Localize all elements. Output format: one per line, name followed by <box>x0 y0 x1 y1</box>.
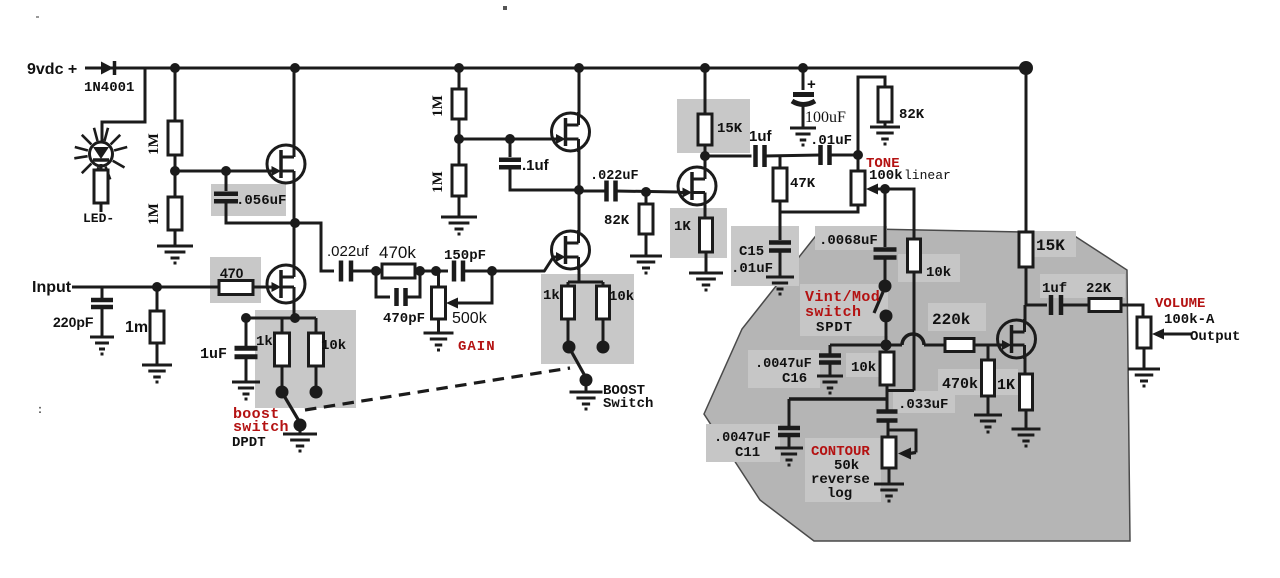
label patch .0047uF C11 <box>706 424 780 462</box>
capacitor C11 .0047uF <box>778 426 800 431</box>
wire .1uf lead <box>509 139 512 157</box>
label patch .033uF <box>893 391 955 413</box>
svg-text:220pF: 220pF <box>53 314 94 330</box>
wire 500k top lead <box>437 271 440 287</box>
wire TONE wiper down to .0068uF <box>884 189 887 247</box>
wire 220pF to ground <box>101 307 104 337</box>
svg-text:+: + <box>807 76 816 93</box>
svg-text:47K: 47K <box>790 176 816 192</box>
wire boost node bar <box>246 317 316 320</box>
wire TONE wiper right branch <box>885 189 914 239</box>
svg-text:100k-A: 100k-A <box>1164 312 1215 328</box>
LED D2 with rays <box>74 128 127 181</box>
wire Q3 drain to rail <box>578 68 581 115</box>
junction dots on rail <box>170 63 180 73</box>
wire R1Mb to ground <box>174 230 177 246</box>
svg-text:100uF: 100uF <box>805 109 846 126</box>
svg-text:.01uF: .01uF <box>810 133 852 149</box>
wire 1uF to ground <box>245 357 248 382</box>
wire bias to Q3 gate <box>459 138 552 141</box>
resistor 1M d <box>452 165 466 196</box>
svg-text:switch: switch <box>233 419 289 436</box>
svg-text:1M: 1M <box>430 171 446 193</box>
svg-text:100k: 100k <box>869 168 903 184</box>
potentiometer TONE body <box>851 171 865 205</box>
mod-region gray polygon <box>704 228 1130 541</box>
resistor 10k upper <box>908 239 921 272</box>
svg-text:Output: Output <box>1190 329 1240 345</box>
wire 1K mod to ground <box>1025 410 1028 429</box>
svg-text:10k: 10k <box>321 338 346 354</box>
wire 1Mc to node <box>458 119 461 139</box>
wire rail to 100uF <box>802 68 805 90</box>
transistor Q6 <box>998 320 1036 358</box>
svg-text:switch: switch <box>805 304 861 321</box>
resistor 470k mod <box>982 360 995 396</box>
resistor 1m <box>150 311 164 343</box>
wire Q5 source down <box>704 203 707 218</box>
wire to R 1m <box>156 287 159 311</box>
capacitor 150pF <box>452 261 457 282</box>
ground under C11 <box>775 448 803 465</box>
wire 82K b to ground <box>884 122 887 127</box>
node interstage <box>574 185 584 195</box>
svg-text:15K: 15K <box>717 121 743 137</box>
resistor 1K a <box>700 218 713 252</box>
transistor Q4 <box>552 231 590 269</box>
transistor Q5 <box>678 167 716 205</box>
ground under 1uF <box>232 382 260 399</box>
svg-text:470k: 470k <box>379 243 416 262</box>
highlight box C15 .01uF <box>731 226 799 286</box>
resistor 82K a <box>639 204 653 234</box>
capacitor .056uF <box>214 192 238 197</box>
highlight box boost 1k 10k <box>255 310 356 408</box>
wire gain out bend to Q4 <box>544 258 553 272</box>
svg-text:470: 470 <box>220 265 244 281</box>
wire boost common to ground <box>299 425 302 434</box>
resistor 15K b <box>1019 232 1033 267</box>
node 1uF <box>241 313 251 323</box>
svg-text:LED-: LED- <box>83 211 114 226</box>
diode 1N4001 <box>101 62 114 75</box>
wire C15 lead <box>779 212 782 240</box>
wire cap to Q5 gate <box>616 191 679 192</box>
wire 10k top lead <box>315 318 318 333</box>
capacitor .022uf <box>339 261 344 282</box>
svg-text:.01uF: .01uF <box>731 261 773 277</box>
highlight box 15K <box>677 99 750 153</box>
wire 470k leads <box>376 270 382 273</box>
switch BOOST lever <box>570 349 585 376</box>
wire C15 to ground <box>779 250 782 277</box>
wire to C11 horizontal <box>789 397 887 401</box>
wire C16 to ground <box>829 363 832 376</box>
svg-text:1M: 1M <box>430 95 446 117</box>
wire Q5 drain up <box>704 156 707 169</box>
svg-text:SPDT: SPDT <box>816 320 853 336</box>
wire 470k tap <box>987 345 990 360</box>
resistor 22K <box>1089 299 1121 312</box>
wire 15K b to out node <box>1025 267 1028 305</box>
wire cap .056uF to Q2 node <box>226 201 295 223</box>
wire .1uf bottom to Q3 source node <box>510 167 579 190</box>
svg-text:DPDT: DPDT <box>232 435 266 451</box>
svg-text:C15: C15 <box>739 244 764 260</box>
svg-text:1uF: 1uF <box>200 346 227 363</box>
wire .0068uF to switch <box>884 257 887 281</box>
node mod junction <box>881 340 892 351</box>
wire Q1 drain to rail <box>293 68 296 147</box>
wire 10k upper down to mod node <box>913 272 916 391</box>
node Vint/Mod switch bottom <box>880 310 893 323</box>
wire drain node to 1uf <box>705 155 752 158</box>
node cap .056 tap <box>221 166 231 176</box>
label patch .0047uF C16 <box>748 350 820 388</box>
svg-text:linear: linear <box>904 168 951 183</box>
svg-text:500k: 500k <box>452 310 488 327</box>
transistor Q3 <box>552 113 590 151</box>
wire node to R 1M b <box>174 171 177 197</box>
wire stage3 1k lead <box>567 319 570 343</box>
wire tap to cap .056uF <box>225 171 228 191</box>
label patch 220k <box>928 303 986 331</box>
svg-text:150pF: 150pF <box>444 248 486 264</box>
wire 9v rail <box>85 67 1026 70</box>
wire Q3 source down <box>578 150 581 190</box>
resistor 82K b <box>878 87 892 122</box>
svg-text:1m: 1m <box>125 319 148 336</box>
resistor 10k lower <box>880 352 894 385</box>
wire hop over vertical <box>902 334 924 345</box>
wire 47K bottom to tone bottom <box>780 201 858 212</box>
potentiometer CONTOUR body <box>882 437 896 468</box>
node gain mid <box>415 266 425 276</box>
svg-text::: : <box>38 402 42 416</box>
ground under 1M d <box>441 217 477 234</box>
wire 1k top lead <box>281 318 284 333</box>
wire R1m to ground <box>156 343 159 365</box>
wire LED resistor tail <box>100 203 103 212</box>
wire 47K tap <box>779 156 782 168</box>
highlight box 1K <box>670 208 727 258</box>
wire stub joining 10k lower node <box>887 389 914 392</box>
label patch 1uf 22K <box>1040 274 1125 298</box>
svg-text:1K: 1K <box>997 377 1015 394</box>
switch boost lever <box>283 394 299 421</box>
node Q2 source <box>290 313 300 323</box>
svg-text:GAIN: GAIN <box>458 339 496 355</box>
wire volume to ground <box>1143 348 1146 369</box>
capacitor .033uF <box>877 409 898 414</box>
svg-text:.022uf: .022uf <box>327 243 370 260</box>
wire 1uF cap lead <box>245 318 248 347</box>
ground under 100uF <box>790 128 816 145</box>
wire Q2 drain node to gain line <box>295 223 334 271</box>
wire stage3 10k lead <box>602 319 605 343</box>
svg-text:Switch: Switch <box>603 396 653 412</box>
wire R1Ma to node <box>174 155 177 171</box>
capacitor 470pF <box>394 288 399 306</box>
node boost common <box>294 419 307 432</box>
capacitor .0068uF <box>874 247 897 252</box>
node boost pole a <box>276 386 289 399</box>
highlight box 470 <box>210 257 261 303</box>
ground under BOOST switch <box>570 392 603 409</box>
resistor 470 <box>219 281 253 295</box>
wire input cap stub <box>101 287 104 298</box>
ground under 470k <box>974 415 1002 432</box>
wire input line <box>72 286 219 289</box>
node Vint/Mod switch top <box>879 280 892 293</box>
svg-text:.0047uF: .0047uF <box>714 431 771 446</box>
node rail right corner <box>1019 61 1033 75</box>
wire 470k to ground <box>987 396 990 415</box>
wire rail to R 1M a <box>174 68 177 121</box>
svg-text:10k: 10k <box>926 265 951 281</box>
potentiometer VOLUME body <box>1137 317 1151 348</box>
svg-text:9vdc +: 9vdc + <box>27 61 77 78</box>
svg-text:22K: 22K <box>1086 281 1112 297</box>
wire 82K lead <box>645 192 648 204</box>
wire 500k to ground <box>437 319 440 333</box>
transistor Q1 <box>267 145 305 183</box>
node .1uf tap <box>505 134 515 144</box>
wire 220k to Q6 gate <box>974 344 998 347</box>
svg-text:C16: C16 <box>782 371 807 387</box>
wire Q6 source down <box>1024 356 1027 374</box>
svg-text:.022uF: .022uF <box>590 169 639 184</box>
wire Q4 drain up <box>578 190 581 233</box>
label patch .0068uF <box>815 226 887 250</box>
wire Q2 source down <box>293 300 296 318</box>
wire .033uF to contour pot <box>887 421 890 438</box>
wire 470pF loop right <box>406 271 420 297</box>
node BOOST pole b <box>597 341 610 354</box>
wire hop to 220k <box>924 344 945 347</box>
wire 1K to ground <box>705 252 708 273</box>
svg-text:.1uf: .1uf <box>522 157 550 174</box>
svg-text:VOLUME: VOLUME <box>1155 296 1205 312</box>
ground under 82K a <box>630 256 662 273</box>
stray speck top <box>503 6 507 10</box>
wire LED feed <box>102 68 145 143</box>
svg-text:.0047uF: .0047uF <box>755 357 812 372</box>
wire .01uF to tone node <box>830 154 859 157</box>
potentiometer TONE wiper <box>866 184 878 195</box>
wire C11 to ground <box>788 435 791 448</box>
node Q1 source junction <box>290 218 300 228</box>
wire Q1 source down <box>293 181 296 223</box>
ground under 1K a <box>689 273 723 290</box>
svg-text:1N4001: 1N4001 <box>84 80 134 96</box>
label patch 15K right <box>1032 231 1076 257</box>
node BOOST pole a <box>563 341 576 354</box>
label patch 10k upper <box>898 254 960 282</box>
wire C11 drop <box>788 399 791 426</box>
wire 82K to ground <box>645 234 648 256</box>
wire mod node to 10k lower <box>885 345 888 352</box>
label patch 10k lower <box>846 353 882 377</box>
resistor stage3 1k <box>562 286 575 319</box>
node 82K tap <box>641 187 651 197</box>
wire 1k bottom lead <box>281 366 284 388</box>
potentiometer 500k wiper <box>446 298 458 309</box>
ground under 220pF <box>90 337 114 354</box>
label patch CONTOUR 50k reverse log <box>805 438 881 502</box>
node Q3 gate bias <box>454 134 464 144</box>
wire 150pF to Q4 gate <box>463 270 545 273</box>
ground under VOLUME <box>1128 369 1160 386</box>
wire 10k bottom lead <box>315 366 318 388</box>
capacitor 220pF <box>91 298 113 303</box>
svg-text:1uf: 1uf <box>1042 281 1067 297</box>
wire tone node to pot <box>857 155 860 171</box>
svg-text:1M: 1M <box>146 203 162 225</box>
svg-text:C11: C11 <box>735 445 760 461</box>
svg-text:15K: 15K <box>1036 237 1065 255</box>
wire wiper to Output <box>1164 333 1191 336</box>
node BOOST common <box>580 374 593 387</box>
resistor 1K mod <box>1020 374 1033 410</box>
ground under 1m <box>142 365 172 382</box>
svg-text:1uf: 1uf <box>749 128 773 145</box>
wire stage3 tee <box>568 281 603 284</box>
node gain left <box>371 266 381 276</box>
svg-text:1k: 1k <box>256 334 273 350</box>
wire tone node up bracket to 82K b <box>858 77 885 155</box>
highlight box stage3 1k 10k <box>541 274 634 364</box>
resistor 1M a <box>168 121 182 155</box>
svg-text:.033uF: .033uF <box>898 397 948 413</box>
capacitor 1uf a <box>753 145 758 167</box>
wire 470pF loop <box>376 271 390 297</box>
wire node to 1M d <box>458 139 461 165</box>
svg-text:220k: 220k <box>932 311 971 329</box>
svg-text:1M: 1M <box>146 133 162 155</box>
wire rail right down to 15K b <box>1025 68 1028 232</box>
wire bias node to Q1 gate <box>175 170 267 173</box>
svg-text:.0068uF: .0068uF <box>819 233 878 249</box>
wire 1uf b to 22K <box>1061 304 1089 307</box>
svg-text:82K: 82K <box>604 213 630 229</box>
dashed link boost to BOOST <box>305 368 570 410</box>
wire 1Md to ground <box>458 196 461 217</box>
resistor 47K <box>773 168 787 201</box>
potentiometer CONTOUR wiper arrow <box>898 448 911 460</box>
node gain right <box>431 266 441 276</box>
wire Q4 source down <box>578 268 581 282</box>
resistor stage3 10k <box>597 286 610 319</box>
wire rail to R 1M c <box>458 68 461 89</box>
wire Q6 drain up <box>1024 305 1027 321</box>
wire 22K to volume <box>1121 305 1143 317</box>
svg-text:470k: 470k <box>942 376 978 393</box>
resistor 1M b <box>168 197 182 230</box>
wire BOOST common to ground <box>585 380 588 392</box>
resistor 1M c <box>452 89 466 119</box>
ground under 82K b <box>870 127 900 144</box>
svg-text:1k: 1k <box>543 288 560 304</box>
resistor boost 1k <box>275 333 290 366</box>
capacitor C15 .01uF <box>769 240 791 245</box>
svg-text:470pF: 470pF <box>383 311 425 327</box>
svg-text:82K: 82K <box>899 107 925 123</box>
transistor Q2 <box>267 265 305 303</box>
label patch 470k 1K <box>938 369 1018 395</box>
resistor 470k <box>382 264 415 278</box>
wire interstage to cap <box>579 190 607 193</box>
svg-text:log: log <box>827 486 852 502</box>
svg-text:1K: 1K <box>674 219 691 235</box>
wire LED to resistor <box>100 164 103 170</box>
wire rail to 15K <box>704 68 707 114</box>
wire contour to ground <box>888 468 891 484</box>
wire 100uF to ground <box>802 106 805 128</box>
wire Q2 drain to node <box>293 223 296 266</box>
capacitor C16 .0047uF <box>829 345 832 354</box>
node boost pole b <box>310 386 323 399</box>
label patch Vint/Mod switch <box>800 284 888 336</box>
node TONE wiper <box>880 184 890 194</box>
resistor LED series <box>94 170 108 203</box>
ground under CONTOUR <box>874 484 904 501</box>
capacitor 1uF <box>235 346 258 351</box>
svg-text:10k: 10k <box>609 289 634 305</box>
wire 15K to Q5 drain node <box>704 145 707 156</box>
resistor 220k <box>945 339 974 352</box>
wire 10k lower bottom lead <box>886 385 889 411</box>
node input R 1m <box>152 282 162 292</box>
svg-text:.056uF: .056uF <box>236 193 286 209</box>
capacitor .01uF tone <box>818 145 823 165</box>
node TONE top <box>853 150 863 160</box>
wire cap to node <box>351 270 376 273</box>
ground under boost switch <box>283 434 317 451</box>
wire contour rheostat loop <box>888 430 916 453</box>
potentiometer 500k body <box>432 287 446 319</box>
stray speck left <box>36 16 39 18</box>
ground under C15 <box>766 277 794 294</box>
wire out node to 1uf b <box>1025 304 1047 307</box>
ground under 1K mod <box>1012 429 1041 446</box>
ground under 500k <box>424 333 454 350</box>
potentiometer VOLUME wiper <box>1152 329 1164 340</box>
wire switch to mod node <box>885 321 888 345</box>
wire 470 to Q2 gate <box>253 286 267 289</box>
resistor 15K a <box>698 114 712 145</box>
node gain out <box>487 266 497 276</box>
highlight box .056uF <box>211 184 286 216</box>
capacitor 1uf b <box>1049 295 1054 315</box>
capacitor .022uF stage4 <box>604 181 609 202</box>
wire C16 to mod node <box>830 344 902 347</box>
ground under 1M b <box>157 246 193 263</box>
switch Vint/Mod lever <box>874 292 883 313</box>
capacitor .1uf <box>499 158 521 163</box>
ground under C16 <box>817 376 843 393</box>
wire 1uf to .01uF <box>765 155 821 156</box>
node Q5 drain <box>700 151 710 161</box>
node bias A <box>170 166 180 176</box>
svg-text:10k: 10k <box>851 360 876 376</box>
resistor boost 10k <box>309 333 324 366</box>
svg-text:Input: Input <box>32 279 72 296</box>
